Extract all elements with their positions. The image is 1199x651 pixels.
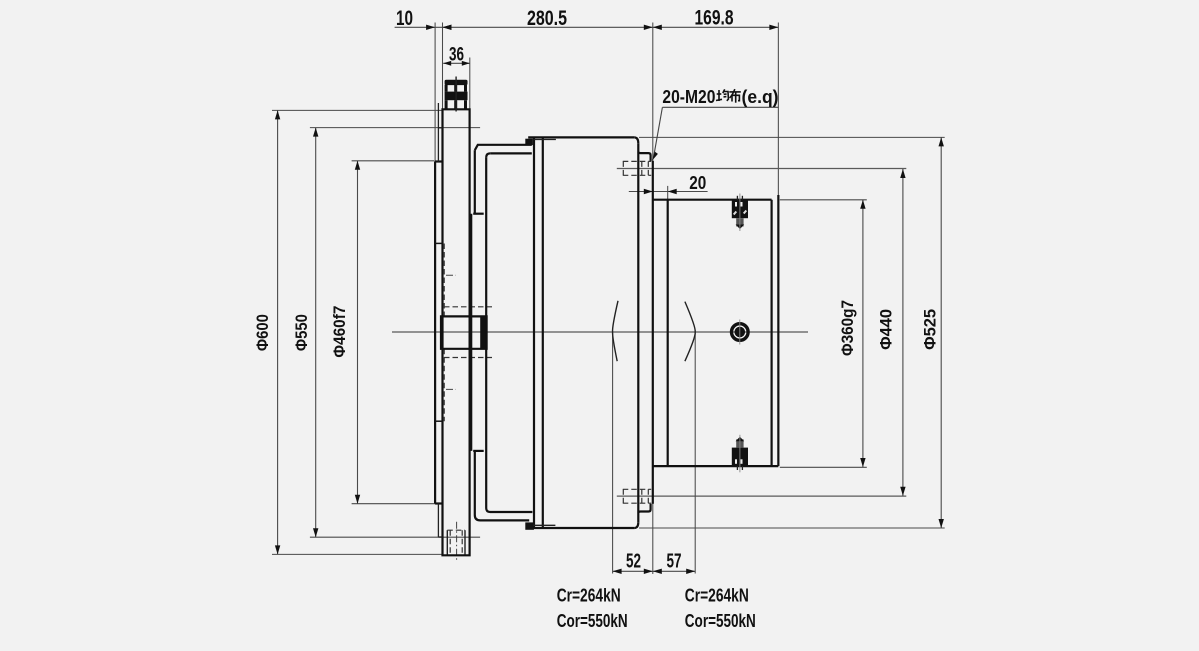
- svg-text:52: 52: [626, 551, 641, 573]
- svg-text:57: 57: [667, 551, 682, 573]
- svg-text:Φ440: Φ440: [877, 309, 896, 350]
- svg-text:20-M20: 20-M20: [662, 87, 715, 107]
- svg-text:36: 36: [449, 45, 464, 66]
- svg-text:169.8: 169.8: [695, 7, 734, 30]
- svg-text:Cor=550kN: Cor=550kN: [685, 611, 756, 631]
- svg-text:Φ525: Φ525: [921, 309, 940, 350]
- svg-text:Cr=264kN: Cr=264kN: [557, 585, 621, 605]
- svg-text:(e.q): (e.q): [742, 87, 779, 107]
- svg-text:Cor=550kN: Cor=550kN: [557, 611, 628, 631]
- svg-text:Φ600: Φ600: [253, 314, 272, 351]
- svg-text:Φ360g7: Φ360g7: [838, 300, 857, 356]
- svg-text:Cr=264kN: Cr=264kN: [685, 585, 749, 605]
- svg-text:20: 20: [689, 173, 706, 193]
- svg-text:10: 10: [396, 7, 413, 30]
- svg-text:Φ550: Φ550: [292, 314, 311, 351]
- svg-text:280.5: 280.5: [527, 7, 567, 30]
- svg-text:Φ460f7: Φ460f7: [330, 306, 349, 358]
